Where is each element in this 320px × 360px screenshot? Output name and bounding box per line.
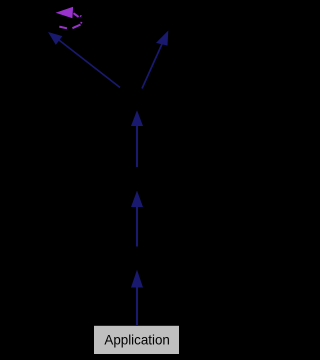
arrowhead: edge up-left xyxy=(48,32,62,45)
wire: purple dashed usage self-loop, dash 1 xyxy=(74,13,79,17)
wire: inheritance edge segment 2 xyxy=(136,207,138,247)
arrowhead: edge up-right xyxy=(156,31,168,46)
node Application xyxy=(94,325,180,354)
wire: purple loop dash dot A xyxy=(79,15,82,16)
wire: inheritance edge up-right xyxy=(142,44,162,89)
arrowhead: inheritance edge 2 xyxy=(131,191,143,207)
wire: purple loop dash dot B xyxy=(80,22,83,24)
wire: purple loop dash 4 xyxy=(59,27,67,29)
wire: inheritance edge up-left xyxy=(57,39,120,88)
wire: inheritance edge segment 3 xyxy=(136,126,138,167)
wire: purple loop dash 3 xyxy=(72,25,80,29)
arrowhead: inheritance edge 3 xyxy=(131,110,143,126)
arrowhead: purple usage arrow xyxy=(56,7,74,18)
svg-text:Application: Application xyxy=(104,331,170,347)
wire: inheritance edge segment 1 (Application to parent) xyxy=(136,287,138,326)
arrowhead: inheritance edge 1 xyxy=(131,270,143,288)
